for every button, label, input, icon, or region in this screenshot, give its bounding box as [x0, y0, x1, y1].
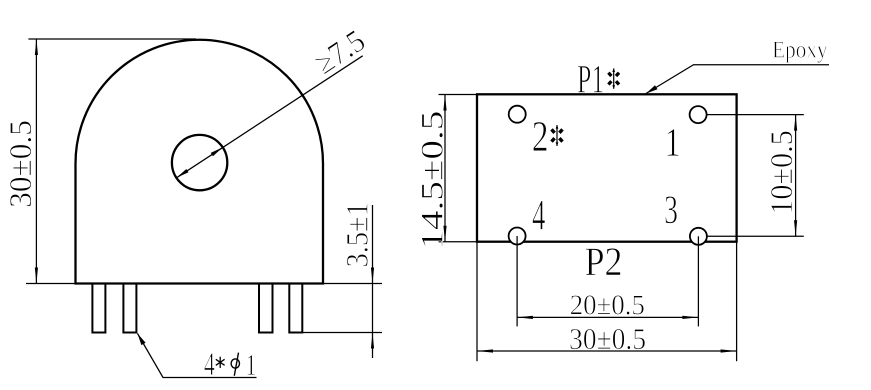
dimension 10±0.5 (right of bottom view) — [707, 115, 804, 237]
pin 3 (front view) — [259, 284, 273, 333]
pin 1 (front view) — [92, 284, 105, 333]
dimension 14.5±0.5 (left of bottom view) — [421, 95, 477, 247]
package outline (bottom view) — [477, 94, 737, 241]
hole diameter dimension ≥7.5 — [177, 29, 367, 177]
dimension 30±0.5 height (left side) — [10, 39, 196, 284]
leader 4*∮1 pin diameter — [138, 334, 257, 378]
dimension 3.5±1 pin length (right of front view) — [303, 204, 383, 358]
label P2 — [586, 248, 621, 275]
center hole — [172, 135, 227, 190]
dimension 30±0.5 (bottom view width) — [477, 242, 737, 362]
pin 2 (front view) — [123, 284, 136, 333]
Epoxy leader — [646, 42, 829, 94]
label P1* — [578, 66, 619, 93]
pin label 1 — [667, 129, 679, 156]
hole pin3 (bottom-right) — [690, 228, 707, 245]
pin 4 (front view) — [289, 284, 302, 333]
transformer body (front view, dome shape) — [76, 40, 324, 284]
extension lines below bottom holes — [516, 236, 518, 326]
hole pin4 (bottom-left) — [509, 228, 526, 245]
pin label 4 — [532, 201, 544, 230]
pin label 2* — [533, 122, 562, 151]
hole pin2 (top-left) — [509, 106, 526, 123]
dimension 20±0.5 (between bottom holes) — [517, 295, 699, 319]
hole pin1 (top-right) — [690, 106, 707, 123]
pin label 3 — [665, 196, 676, 223]
